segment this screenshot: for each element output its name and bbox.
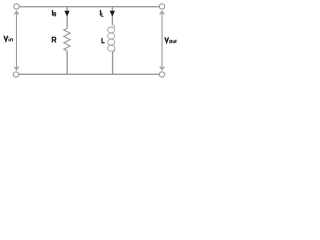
resistor branch wire (top) xyxy=(66,7,68,28)
Vout measurement arrow xyxy=(160,11,165,70)
wire bottom xyxy=(19,73,160,75)
label Vin xyxy=(4,36,13,42)
inductor branch wire (bottom) xyxy=(112,52,114,75)
Vin measurement arrow xyxy=(14,11,19,70)
current arrow IL xyxy=(110,11,115,17)
terminal top-right xyxy=(159,4,164,9)
terminal top-left xyxy=(14,4,19,9)
resistor branch wire (bottom) xyxy=(66,52,68,75)
current arrow IR xyxy=(64,11,69,17)
inductor branch wire (top) xyxy=(111,7,113,25)
background xyxy=(0,0,180,83)
wire top xyxy=(20,6,160,8)
label R xyxy=(52,37,56,42)
terminal bottom-left xyxy=(13,72,18,77)
label Vout xyxy=(165,37,177,43)
label IR xyxy=(53,10,56,17)
label IL xyxy=(101,10,104,17)
label L xyxy=(102,38,105,43)
resistor R zigzag xyxy=(64,27,70,52)
inductor L coil xyxy=(108,25,115,53)
terminal bottom-right xyxy=(159,72,164,77)
